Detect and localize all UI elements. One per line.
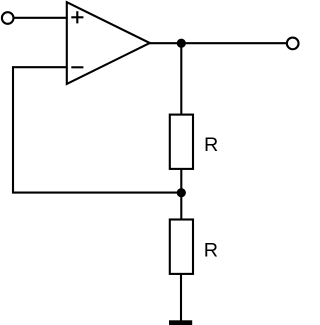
resistor R1 (170, 115, 218, 169)
output terminal (287, 38, 299, 50)
ground (169, 320, 192, 325)
input terminal (2, 12, 14, 24)
op-amp U1 (67, 2, 150, 84)
wire output (149, 42, 289, 44)
wire feedback: inverting input left, down, right to node A (13, 67, 181, 192)
wire R2 to ground (180, 274, 182, 321)
wire node A to R2 (180, 193, 182, 220)
node output junction (177, 39, 186, 48)
resistor R2 (170, 220, 218, 274)
svg-text:R: R (204, 134, 218, 156)
node A junction (177, 188, 186, 197)
svg-text:R: R (204, 239, 218, 261)
wire input to non-inverting input (13, 17, 67, 19)
wire output node down to R1 (180, 43, 182, 114)
wire R1 to node A (180, 169, 182, 193)
